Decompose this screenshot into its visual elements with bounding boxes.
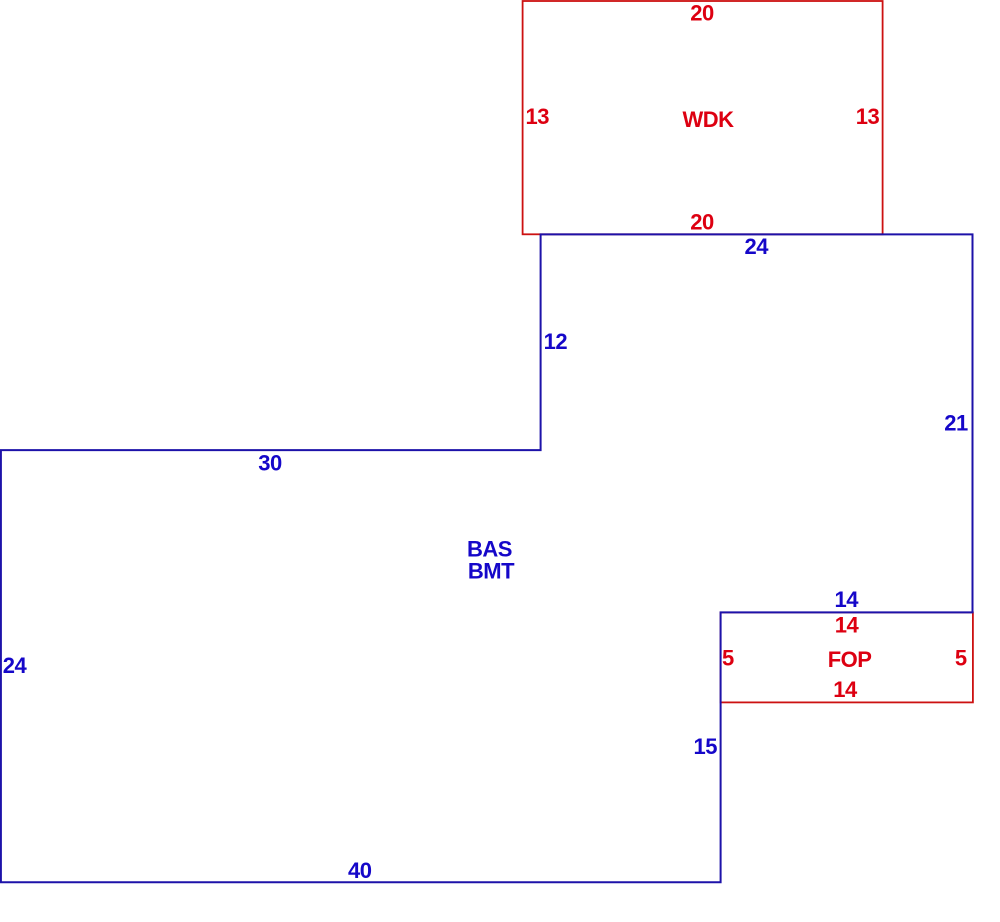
WDK deck outline (red rectangle) [523,1,883,234]
svg-text:30: 30 [258,451,282,476]
svg-text:14: 14 [835,612,860,637]
svg-text:40: 40 [348,858,372,883]
svg-text:BMT: BMT [468,558,515,583]
svg-text:WDK: WDK [682,107,734,132]
BAS/BMT main outline (blue polygon) [1,234,973,882]
svg-text:13: 13 [525,104,549,129]
svg-text:20: 20 [690,209,714,234]
FOP porch outline (red rectangle) [721,612,973,702]
svg-text:13: 13 [856,104,880,129]
svg-text:5: 5 [955,646,967,671]
svg-text:20: 20 [690,1,714,26]
svg-text:5: 5 [722,646,734,671]
svg-text:FOP: FOP [828,647,872,672]
svg-text:14: 14 [833,677,858,702]
svg-text:24: 24 [744,234,769,259]
svg-text:14: 14 [834,587,859,612]
svg-text:21: 21 [944,410,968,435]
svg-text:24: 24 [3,653,28,678]
svg-text:12: 12 [544,329,568,354]
svg-text:15: 15 [693,734,717,759]
